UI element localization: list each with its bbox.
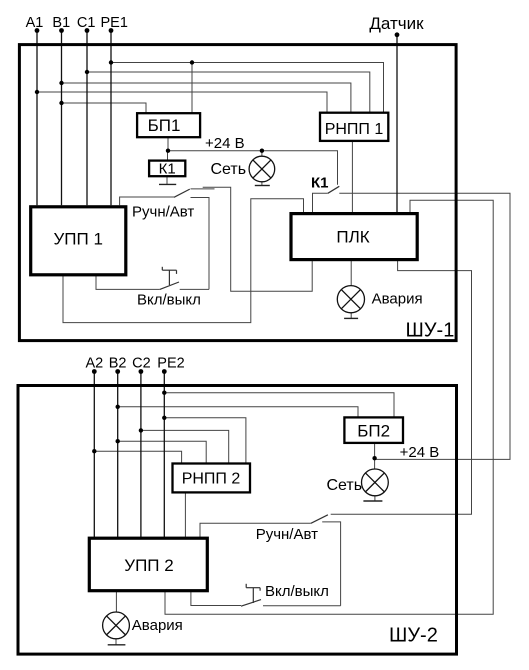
svg-text:ШУ-2: ШУ-2 [389,625,438,647]
svg-text:С1: С1 [77,15,96,31]
svg-text:РЕ2: РЕ2 [157,356,184,372]
svg-text:В2: В2 [109,356,127,372]
svg-text:К1: К1 [311,175,329,192]
svg-text:РНПП 1: РНПП 1 [325,121,384,138]
svg-text:Авария: Авария [132,617,183,634]
svg-text:УПП 1: УПП 1 [53,230,102,249]
svg-text:Вкл/выкл: Вкл/выкл [137,292,201,309]
svg-text:БП2: БП2 [357,422,390,441]
svg-text:Сеть: Сеть [211,161,247,178]
svg-text:Авария: Авария [372,291,423,308]
svg-text:В1: В1 [52,15,70,31]
svg-text:Сеть: Сеть [327,477,363,494]
svg-text:С2: С2 [132,356,151,372]
svg-text:+24 В: +24 В [205,135,245,152]
svg-text:ПЛК: ПЛК [336,228,369,247]
svg-text:РЕ1: РЕ1 [100,15,127,31]
svg-text:Датчик: Датчик [369,14,424,33]
svg-text:ШУ-1: ШУ-1 [406,320,455,342]
svg-text:РНПП 2: РНПП 2 [182,471,241,488]
svg-text:А1: А1 [26,15,44,31]
svg-text:Ручн/Авт: Ручн/Авт [132,204,194,221]
svg-text:БП1: БП1 [148,116,181,135]
svg-text:Ручн/Авт: Ручн/Авт [256,526,318,543]
svg-text:К1: К1 [159,161,176,178]
svg-text:+24 В: +24 В [400,444,440,461]
svg-text:УПП 2: УПП 2 [124,556,173,575]
svg-text:А2: А2 [86,356,104,372]
svg-text:Вкл/выкл: Вкл/выкл [265,583,329,600]
